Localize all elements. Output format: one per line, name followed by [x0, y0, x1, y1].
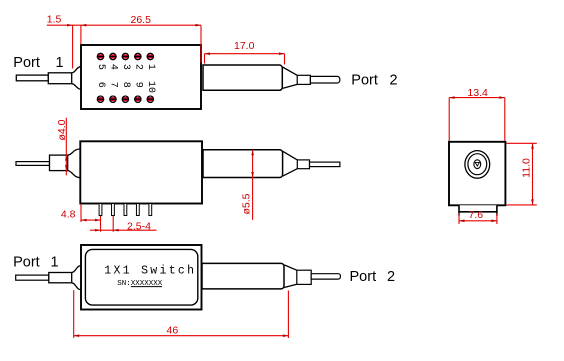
top view: switch body	[81, 45, 201, 109]
svg-text:2: 2	[132, 64, 143, 70]
dim line 13.4	[449, 97, 505, 99]
underline under serial	[131, 286, 162, 288]
extension line end-view right	[504, 98, 506, 141]
end view: fiber core mark	[475, 162, 479, 166]
extension line at boot end	[72, 25, 74, 68]
side view pin 3	[124, 204, 127, 216]
end view: bottom mounting tab	[459, 205, 497, 212]
extension line pin1	[100, 216, 102, 232]
side view: left fiber	[16, 162, 50, 166]
svg-text:26.5: 26.5	[131, 14, 152, 26]
svg-text:3: 3	[120, 64, 131, 70]
svg-text:2.5-4: 2.5-4	[127, 221, 151, 233]
extension line pin2	[112, 216, 114, 232]
svg-text:6: 6	[95, 82, 106, 88]
svg-text:ø5.5: ø5.5	[241, 193, 253, 214]
extension line right (46)	[287, 291, 289, 339]
end view: body	[449, 142, 505, 206]
side view pin 4	[136, 204, 139, 216]
tab side stubs	[458, 212, 460, 216]
svg-text:Port: Port	[351, 72, 378, 88]
dim line 1.5/26.5	[47, 24, 201, 26]
dim line 4.8	[81, 219, 101, 221]
front view: left boot	[49, 273, 72, 283]
side view: right cone taper	[283, 151, 298, 176]
svg-text:5: 5	[95, 64, 106, 70]
dim line 46	[74, 335, 289, 337]
svg-text:Port: Port	[13, 55, 40, 71]
extension line at body right	[200, 25, 202, 62]
side view: switch body	[80, 141, 202, 203]
top view: right output tube	[203, 65, 282, 90]
extension line 11.0 bottom	[507, 204, 537, 206]
side view: right fiber	[310, 162, 340, 167]
extension line end-view left	[448, 98, 450, 141]
extension line tube right	[284, 54, 286, 65]
front view: left fiber	[16, 275, 49, 280]
svg-text:Port: Port	[13, 254, 40, 270]
svg-text:1: 1	[145, 64, 156, 70]
svg-text:1.5: 1.5	[47, 13, 62, 25]
svg-text:1X1 Switch: 1X1 Switch	[104, 264, 196, 277]
end view: outer ferrule ring	[465, 151, 490, 179]
dim line 7.6	[459, 220, 497, 222]
top view: left flare into body	[72, 67, 82, 90]
extension line tab right	[496, 214, 498, 225]
top view: left boot	[48, 73, 71, 84]
svg-text:2: 2	[390, 72, 398, 88]
extension line tube left	[204, 54, 206, 64]
extension line body left bottom	[80, 204, 82, 222]
svg-text:7: 7	[107, 82, 118, 88]
front view: right cone taper	[284, 265, 297, 288]
svg-text:46: 46	[167, 324, 179, 336]
side view: left boot	[50, 155, 68, 171]
svg-text:4: 4	[107, 64, 118, 70]
front view: label plate (rounded)	[85, 249, 197, 305]
front view: right output tube	[202, 263, 284, 289]
top view: right cone taper	[283, 67, 298, 88]
svg-text:1: 1	[56, 55, 64, 71]
dim line 2.5-4	[90, 229, 157, 231]
front view: switch body	[81, 245, 202, 310]
front view: right crimp sleeve	[297, 270, 311, 284]
front view: right fiber Port 2	[311, 274, 340, 279]
svg-text:7.6: 7.6	[469, 209, 484, 221]
extension line left (46)	[73, 290, 75, 338]
side view pin 2	[112, 204, 115, 216]
top view: left pigtail fiber Port 1	[16, 75, 48, 81]
extension line 11.0 top	[507, 142, 537, 144]
svg-text:Port: Port	[350, 269, 377, 285]
svg-text:10: 10	[145, 81, 156, 93]
svg-text:17.0: 17.0	[234, 40, 255, 52]
side view pin 1	[99, 204, 102, 216]
svg-text:8: 8	[120, 82, 131, 88]
dim line phi4.0	[65, 118, 67, 176]
side view: right crimp sleeve	[297, 160, 309, 169]
svg-text:11.0: 11.0	[521, 158, 533, 178]
side view: right output tube	[203, 150, 283, 178]
front view: left flare	[72, 266, 82, 290]
dim line 11.0	[532, 143, 534, 205]
end view: middle ring	[468, 154, 487, 175]
side view pin 5	[149, 204, 152, 216]
svg-text:9: 9	[132, 82, 143, 88]
extension line at body left	[80, 25, 82, 44]
svg-text:4.8: 4.8	[61, 209, 76, 221]
dim line phi5.5	[252, 150, 254, 220]
top view: right fiber Port 2	[310, 76, 339, 83]
side view: left flare	[68, 149, 81, 178]
svg-text:2: 2	[387, 269, 395, 285]
dim line 17.0	[205, 53, 285, 55]
extension line tab left	[458, 214, 460, 225]
end view: inner ring	[474, 160, 481, 169]
svg-text:1: 1	[51, 254, 59, 270]
top view: right crimp sleeve	[297, 75, 310, 84]
